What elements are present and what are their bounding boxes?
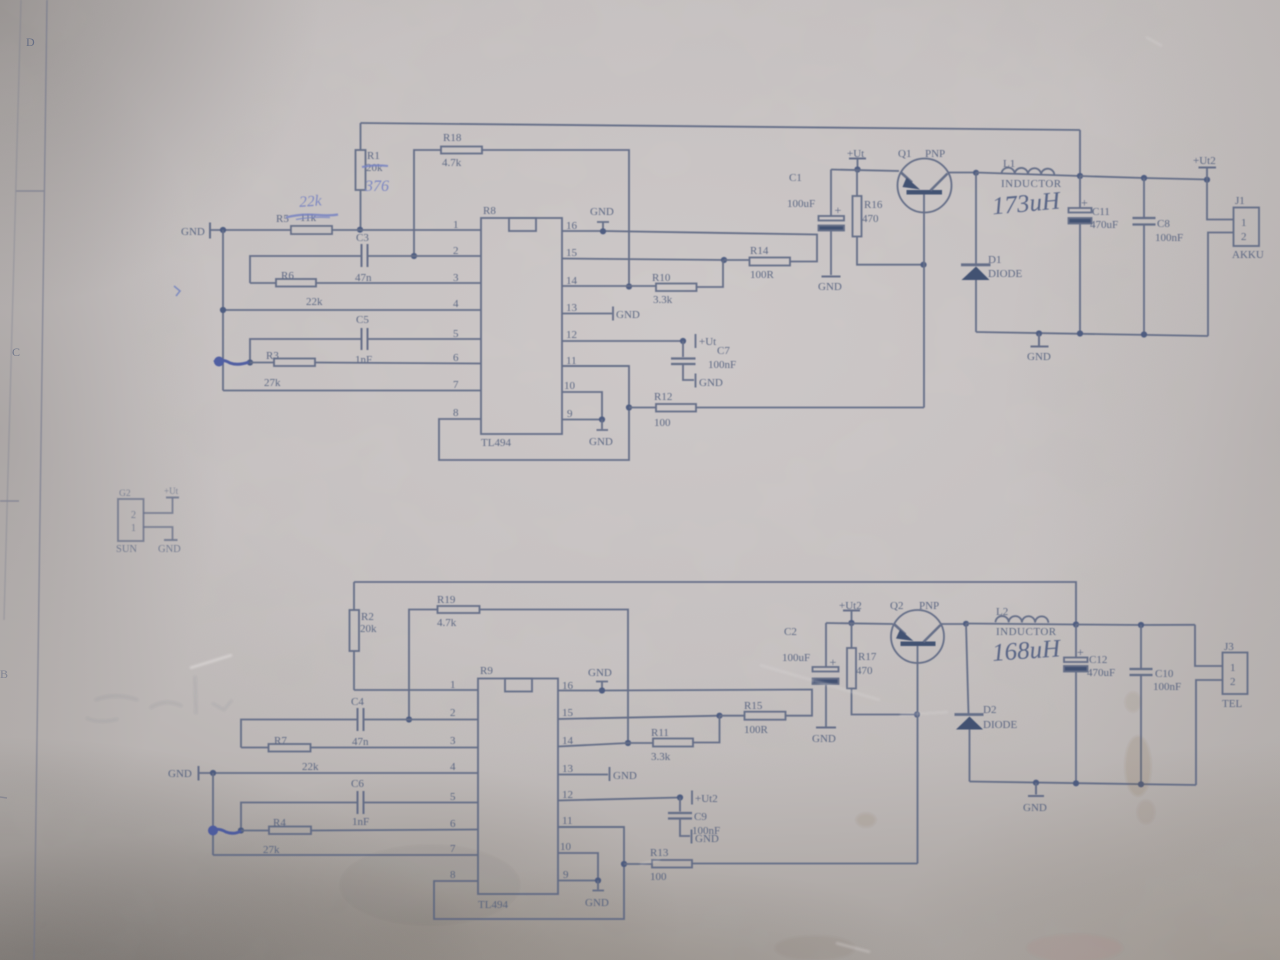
svg-text:D1: D1 (988, 254, 1001, 266)
resistor R18 (441, 147, 482, 154)
svg-text:C10: C10 (1155, 668, 1174, 680)
svg-text:TEL: TEL (1222, 698, 1242, 710)
+Ut terminal SUN (166, 497, 179, 499)
pen blob junction upper (214, 357, 224, 367)
node collector/D2 (963, 621, 969, 627)
GND symbol SUN (164, 539, 178, 541)
svg-text:6: 6 (450, 818, 456, 830)
svg-text:22k: 22k (302, 761, 319, 773)
GND symbol C2 (816, 727, 836, 729)
node R16/base (920, 262, 926, 268)
node R13 tap on loop (621, 861, 627, 867)
wire R18 left to pin2 row (414, 150, 441, 256)
capacitor C3 (362, 244, 368, 267)
wire Q2 base down (917, 646, 919, 864)
GND tag C9 (691, 830, 693, 844)
pen strike through 20k (362, 165, 388, 167)
wire ground rail (976, 332, 1208, 336)
svg-text:100: 100 (650, 871, 667, 883)
svg-text:R8: R8 (483, 205, 496, 217)
svg-text:1: 1 (450, 679, 456, 691)
wire R18 right to pin14 row (482, 150, 629, 287)
svg-text:GND: GND (585, 897, 609, 909)
svg-text:10: 10 (560, 841, 572, 853)
resistor R14 (750, 258, 791, 266)
svg-text:C2: C2 (784, 626, 797, 638)
resistor R5 (291, 226, 332, 234)
connector G2 SUN (118, 499, 144, 541)
svg-text:3: 3 (450, 735, 456, 747)
wire G2 pin1 to +Ut (144, 498, 173, 513)
node rail C8 (1141, 331, 1147, 337)
svg-text:168uH: 168uH (991, 635, 1063, 667)
svg-text:J3: J3 (1224, 641, 1234, 653)
wire pin6 row (311, 830, 478, 831)
wire output node drop (1079, 130, 1081, 176)
svg-text:GND: GND (588, 667, 612, 679)
wire R17 bottom to base (852, 689, 918, 715)
node pin9 GND lower (595, 877, 601, 883)
border outer line (4, 0, 21, 620)
svg-text:+Ut2: +Ut2 (695, 793, 718, 805)
svg-text:15: 15 (562, 707, 574, 719)
svg-text:+Ut2: +Ut2 (1193, 155, 1216, 167)
svg-text:3: 3 (453, 272, 459, 284)
GND tag pin13 lower (609, 767, 611, 781)
wire R13 right to Q2 base (692, 863, 918, 865)
svg-text:2: 2 (453, 245, 459, 257)
diode D2 (966, 624, 969, 715)
wire pin5 row left of C6 (241, 803, 358, 831)
node rail C12 (1073, 780, 1079, 786)
node output/C11 (1077, 173, 1083, 179)
svg-text:47n: 47n (352, 736, 369, 748)
svg-text:4: 4 (450, 761, 456, 773)
svg-text:C4: C4 (351, 696, 364, 708)
wire ground rail lower (970, 782, 1197, 786)
svg-text:9: 9 (567, 408, 573, 420)
wire pin12 row (562, 340, 683, 342)
svg-text:R1: R1 (367, 150, 380, 162)
wire R2 bottom to pin1 row (353, 651, 355, 690)
GND tag pin13 (612, 307, 614, 321)
IC notch lower (505, 679, 532, 692)
svg-text:10: 10 (564, 380, 576, 392)
svg-text:+: + (1077, 645, 1084, 659)
svg-text:100R: 100R (744, 724, 769, 736)
svg-text:6: 6 (453, 352, 459, 364)
svg-text:2: 2 (1241, 231, 1247, 243)
svg-text:R15: R15 (744, 700, 763, 712)
node collector/D1 (973, 170, 979, 176)
wire R11 right up to node (693, 716, 720, 743)
svg-text:1: 1 (453, 219, 459, 231)
wire R19 right to pin14 row (480, 610, 629, 744)
svg-text:R18: R18 (443, 132, 462, 144)
svg-text:R5: R5 (276, 213, 289, 225)
svg-text:2: 2 (1230, 676, 1236, 688)
svg-text:GND: GND (168, 768, 192, 780)
wire pin15 row lower (558, 716, 720, 719)
svg-text:D: D (26, 35, 35, 49)
wire R16 top (856, 170, 858, 197)
svg-text:TL494: TL494 (481, 437, 511, 449)
wire pin10 to pin9 (562, 392, 602, 420)
wire R4 left (241, 830, 269, 832)
resistor R16 (853, 196, 862, 237)
capacitor C12 (1064, 658, 1088, 663)
svg-text:Q2: Q2 (890, 600, 903, 612)
svg-text:GND: GND (181, 226, 205, 238)
svg-text:C5: C5 (356, 314, 369, 326)
wire pin16 to GND net (562, 231, 817, 262)
wire pin4 row (223, 309, 481, 311)
GND symbol pin9 (597, 420, 609, 431)
svg-text:8: 8 (453, 407, 459, 419)
wire R16 bottom to base (857, 237, 924, 265)
svg-text:470uF: 470uF (1087, 667, 1115, 679)
wire pin14 row (562, 285, 656, 287)
wire pin2 row left of C4 (241, 720, 358, 748)
wire pin12 row lower (558, 798, 680, 801)
svg-text:GND: GND (616, 309, 640, 321)
svg-text:22k: 22k (299, 192, 324, 211)
svg-text:12: 12 (566, 329, 577, 341)
node C9/+Ut2 (677, 794, 683, 800)
node pin9 GND (599, 416, 605, 422)
svg-text:22k: 22k (306, 296, 323, 308)
wire emitter row lower (826, 623, 893, 624)
capacitor C10 (1140, 625, 1142, 668)
resistor R13 (652, 860, 692, 868)
node R1/pin1 (357, 227, 363, 233)
wire pin8 loop to pin11 (439, 366, 629, 460)
wire top feedback loop U2 out to output node (354, 582, 1076, 625)
wire R15 left (720, 715, 745, 717)
svg-text:C6: C6 (351, 778, 364, 790)
node pin14/R18 (626, 283, 632, 289)
resistor R19 (438, 606, 480, 613)
wire Q1 collector to node (948, 172, 977, 174)
resistor R15 (745, 712, 786, 720)
svg-text:1: 1 (1230, 662, 1236, 674)
node pin2/R19 (406, 716, 412, 722)
node C10 top (1138, 622, 1144, 628)
svg-text:1nF: 1nF (352, 816, 369, 828)
GND symbol rail lower (1028, 783, 1044, 796)
svg-text:DIODE: DIODE (983, 719, 1017, 731)
svg-text:R6: R6 (281, 270, 294, 282)
svg-text:C7: C7 (717, 345, 730, 357)
small pen mark left of R5 (174, 286, 180, 296)
wire pin5 row left of C5 (250, 339, 362, 363)
svg-text:9: 9 (563, 869, 569, 881)
wire emitter row (831, 170, 899, 172)
wire GND to pin4 (199, 772, 479, 774)
svg-text:13: 13 (566, 302, 578, 314)
resistor R11 (653, 739, 693, 747)
node R4 left (238, 827, 244, 833)
wire R13 left (624, 863, 652, 865)
svg-text:20k: 20k (360, 623, 377, 635)
svg-text:Q1: Q1 (898, 148, 911, 160)
pink smear bottom (1027, 934, 1123, 960)
svg-text:+Ut: +Ut (164, 486, 179, 496)
wire pin11 row lower (558, 826, 624, 828)
svg-text:GND: GND (699, 377, 723, 389)
svg-text:100uF: 100uF (782, 652, 810, 664)
node pin4/GND rail (220, 307, 226, 313)
svg-text:100: 100 (654, 417, 671, 429)
svg-text:470: 470 (862, 213, 879, 225)
svg-text:2: 2 (131, 510, 136, 521)
svg-text:G2: G2 (119, 489, 131, 499)
left edge tick mark (0, 797, 7, 798)
wire GND vertical rail lower (212, 773, 214, 855)
wire R1 bottom to pin1 row (360, 190, 362, 230)
connector J1 (1234, 208, 1260, 247)
svg-text:15: 15 (566, 247, 578, 259)
svg-text:C11: C11 (1092, 206, 1110, 218)
svg-text:470: 470 (856, 665, 873, 677)
connector J3 (1223, 653, 1248, 695)
svg-text:R10: R10 (652, 272, 671, 284)
IC U2 TL494 box (478, 679, 558, 895)
svg-text:R3: R3 (266, 350, 279, 362)
wire Q2 collector to node (941, 623, 967, 625)
svg-text:R17: R17 (858, 651, 877, 663)
svg-text:R14: R14 (750, 245, 769, 257)
svg-text:R13: R13 (650, 847, 669, 859)
small brown speck (856, 813, 876, 827)
svg-text:R12: R12 (654, 391, 672, 403)
svg-text:R16: R16 (864, 199, 883, 211)
node pin16 GND lower (599, 687, 605, 693)
svg-text:12: 12 (562, 789, 573, 801)
node C7/+Ut (680, 338, 686, 344)
svg-text:SUN: SUN (116, 544, 137, 555)
svg-text:+: + (1081, 196, 1088, 210)
svg-text:R7: R7 (274, 735, 287, 747)
+Ut terminal pin12 (695, 334, 697, 348)
node emitter/+Ut2/C2 (848, 620, 854, 626)
node R17/base (914, 711, 920, 717)
wire pin7 row (213, 854, 478, 856)
resistor R1 (356, 150, 366, 190)
wire R12 left (629, 407, 656, 409)
GND symbol rail (1031, 334, 1049, 347)
wire pin7 row (223, 390, 481, 392)
svg-text:C8: C8 (1157, 218, 1170, 230)
node rail C11 (1077, 330, 1083, 336)
svg-text:27k: 27k (264, 377, 281, 389)
svg-text:B: B (0, 667, 8, 681)
IC notch (509, 218, 536, 231)
resistor R6 (276, 279, 316, 287)
capacitor C11 (1079, 176, 1081, 208)
pen strike through 11k (286, 215, 338, 218)
resistor R7 (269, 744, 311, 752)
capacitor C5 (362, 328, 368, 350)
node R15/R11 (716, 713, 722, 719)
wire R17 top (851, 623, 853, 648)
svg-text:5: 5 (450, 791, 456, 803)
wire pin9 row (562, 419, 602, 421)
node C8 top (1141, 175, 1147, 181)
IC U1 TL494 box (481, 218, 562, 434)
svg-text:1nF: 1nF (355, 354, 372, 366)
wire pin14 row lower (558, 743, 628, 747)
wire GND vertical rail (222, 230, 224, 391)
svg-text:R19: R19 (437, 594, 456, 606)
svg-text:4: 4 (453, 298, 459, 310)
svg-text:J1: J1 (1235, 195, 1245, 207)
svg-text:C: C (12, 345, 20, 359)
svg-text:DIODE: DIODE (988, 268, 1022, 280)
wire pin2 row left of C3 (250, 256, 362, 283)
svg-text:100nF: 100nF (692, 825, 720, 837)
svg-text:C9: C9 (694, 811, 707, 823)
wire pin13 row lower (558, 774, 608, 776)
wire pin16 to GND net lower (558, 690, 812, 716)
wire R2 top (353, 582, 355, 610)
node pin2/R18 (411, 253, 417, 259)
wire pin2 row right of C4 (364, 719, 479, 721)
wire GND to pin1 (210, 229, 481, 231)
wire J1 pin2 to rail (1208, 233, 1234, 337)
diode D1 (975, 173, 977, 265)
svg-text:1: 1 (1241, 217, 1247, 229)
svg-text:3.3k: 3.3k (653, 294, 673, 306)
resistor R2 (350, 610, 360, 651)
capacitor C8 (1143, 178, 1145, 217)
wire pin15 row (562, 259, 724, 261)
svg-text:4.7k: 4.7k (442, 157, 462, 169)
GND symbol C1 (822, 276, 841, 278)
wire pin13 row (562, 313, 612, 315)
wire pin5 row right of C5 (368, 338, 482, 340)
white scratch streaks (190, 655, 232, 668)
capacitor C9 (679, 798, 681, 812)
svg-text:GND: GND (818, 281, 842, 293)
capacitor C4 (358, 708, 364, 731)
node emitter/+Ut/C1 (854, 166, 860, 172)
svg-text:GND: GND (158, 544, 181, 555)
svg-text:C3: C3 (356, 232, 369, 244)
wire R14 left (724, 259, 750, 261)
node rail GND tap (1036, 330, 1042, 336)
svg-text:GND: GND (590, 206, 614, 218)
node output/C12 (1073, 621, 1079, 627)
pen blob junction lower (208, 826, 218, 836)
GND symbol pin9 lower (593, 881, 605, 891)
wire pin5 row right of C6 (364, 802, 479, 804)
wire pin1 row (354, 689, 478, 691)
border tick row C/B (0, 500, 19, 502)
border tick row D/C (16, 190, 45, 192)
GND tag C7 (695, 374, 697, 388)
resistor R10 (656, 284, 697, 292)
svg-text:5: 5 (453, 328, 459, 340)
svg-text:470uF: 470uF (1090, 219, 1118, 231)
svg-text:C1: C1 (789, 172, 802, 184)
wire R11 left (628, 742, 653, 744)
wire J1 pin1 (1207, 180, 1234, 220)
svg-text:AKKU: AKKU (1232, 249, 1264, 261)
node R14/R10 (721, 257, 727, 263)
wire R3 left (250, 362, 274, 364)
wire R10 right up to node (697, 260, 724, 287)
wire output row lower (1076, 624, 1195, 627)
svg-text:100nF: 100nF (708, 359, 736, 371)
resistor R12 (656, 404, 696, 412)
svg-text:GND: GND (589, 436, 613, 448)
node R12 tap on loop (626, 404, 632, 410)
wire R19 left to pin2 row (409, 610, 438, 720)
node GND vertical top (220, 227, 226, 233)
svg-text:2: 2 (450, 707, 456, 719)
svg-text:20k: 20k (366, 162, 383, 174)
svg-text:R9: R9 (480, 665, 493, 677)
wire pin8 loop to pin11 lower (434, 827, 624, 919)
faint dark smudge near bottom center-left (340, 845, 520, 925)
node rail GND tap lower (1033, 780, 1039, 786)
wire pin10 to pin9 lower (558, 853, 598, 881)
sheet border frame (left) (0, 0, 47, 960)
wire pin3 row (316, 282, 481, 284)
wire G2 pin2 to GND (144, 527, 173, 540)
wire J3 pin1 (1195, 625, 1223, 666)
svg-text:100nF: 100nF (1153, 681, 1181, 693)
svg-text:100uF: 100uF (787, 198, 815, 210)
capacitor C7 (682, 341, 684, 357)
svg-text:D2: D2 (983, 704, 996, 716)
brown stain right-lower (1125, 736, 1151, 796)
border inner line (34, 0, 47, 960)
svg-text:C12: C12 (1089, 654, 1107, 666)
svg-text:+Ut: +Ut (699, 336, 716, 348)
wire pin11 row (562, 365, 629, 367)
wire pin3 row (311, 747, 479, 749)
wire pin2 row right of C3 (368, 255, 482, 257)
svg-text:7: 7 (453, 379, 459, 391)
wire R1 top (360, 123, 362, 150)
svg-text:376: 376 (364, 178, 389, 195)
resistor R3 (274, 359, 315, 367)
svg-text:GND: GND (1023, 802, 1047, 814)
capacitor C6 (358, 791, 364, 814)
svg-text:R11: R11 (651, 727, 669, 739)
svg-text:100R: 100R (750, 269, 775, 281)
svg-text:3.3k: 3.3k (651, 751, 671, 763)
svg-text:+: + (830, 655, 837, 669)
svg-text:1: 1 (131, 523, 136, 534)
svg-text:+: + (835, 203, 842, 217)
wire R6 left (250, 282, 276, 284)
node rail C10 (1138, 781, 1144, 787)
svg-text:4.7k: 4.7k (437, 617, 457, 629)
wire J3 pin2 to rail (1196, 680, 1223, 785)
wire output row to +Ut2 (1080, 176, 1207, 180)
svg-text:R2: R2 (361, 611, 374, 623)
svg-text:R4: R4 (273, 817, 286, 829)
resistor R4 (269, 827, 311, 835)
wire top feedback loop U1 out to output node (361, 123, 1081, 130)
svg-text:11: 11 (562, 815, 573, 827)
wire R7 left (241, 747, 269, 749)
wire Q1 base down (923, 195, 925, 408)
svg-text:GND: GND (1027, 351, 1051, 363)
